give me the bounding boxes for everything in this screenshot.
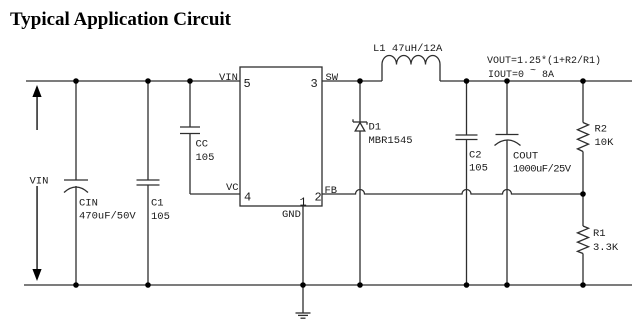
wire CIN branch — [75, 81, 77, 285]
svg-text:L1 47uH/12A: L1 47uH/12A — [373, 43, 443, 55]
svg-text:4: 4 — [244, 191, 251, 205]
pin label FB — [325, 185, 338, 197]
wire COUT branch — [506, 81, 508, 285]
svg-text:CC: CC — [196, 139, 209, 151]
svg-text:470uF/50V: 470uF/50V — [79, 211, 136, 223]
svg-text:3: 3 — [311, 77, 318, 91]
svg-text:FB: FB — [325, 185, 338, 197]
node SW junction D1 top — [357, 78, 363, 84]
node ground junction CIN bottom — [73, 282, 79, 288]
node ground junction R1 bottom — [580, 282, 586, 288]
node VIN junction C1 top — [145, 78, 151, 84]
svg-text:VIN: VIN — [30, 176, 49, 188]
wire FB line with hops — [322, 190, 583, 195]
svg-text:CIN: CIN — [79, 198, 98, 210]
capacitor C1 plates — [137, 180, 160, 185]
value label L1 — [373, 43, 443, 55]
value label D1 — [369, 122, 413, 148]
svg-text:D1: D1 — [369, 122, 382, 134]
svg-text:VC: VC — [226, 182, 239, 194]
svg-text:VIN: VIN — [219, 72, 238, 84]
svg-text:105: 105 — [151, 211, 170, 223]
svg-text:105: 105 — [469, 163, 488, 175]
node VOUT junction R2 top — [580, 78, 586, 84]
wire R2 R1 branch — [582, 81, 584, 285]
wire GND pin 1 to ground — [302, 206, 304, 313]
wire top rail SW to L1 — [322, 80, 382, 82]
node ground junction GND pin — [300, 282, 306, 288]
svg-text:GND: GND — [282, 209, 301, 221]
wire top rail L1 to right edge — [440, 80, 632, 82]
wire C1 branch — [147, 81, 149, 285]
inductor L1 — [382, 56, 440, 82]
resistor R2 zigzag — [578, 123, 589, 152]
node ground junction COUT bottom — [504, 282, 510, 288]
node ground junction C1 bottom — [145, 282, 151, 288]
VIN down arrow — [32, 186, 41, 281]
value label COUT — [513, 151, 572, 176]
node ground junction C2 bottom — [464, 282, 470, 288]
wire top rail left segment — [26, 80, 240, 82]
title — [10, 9, 232, 30]
net label IOUT range — [488, 66, 554, 81]
net label VOUT formula — [487, 55, 601, 67]
node FB junction R2 R1 — [580, 191, 586, 197]
node VOUT junction COUT top — [504, 78, 510, 84]
pin label GND — [282, 209, 301, 221]
svg-text:SW: SW — [326, 72, 339, 84]
wire VC pin 4 — [190, 193, 240, 195]
svg-text:VOUT=1.25*(1+R2/R1): VOUT=1.25*(1+R2/R1) — [487, 55, 601, 67]
svg-text:1: 1 — [300, 196, 307, 210]
svg-text:1000uF/25V: 1000uF/25V — [513, 164, 572, 176]
pin number 2 — [315, 191, 322, 205]
wire C2 branch — [466, 81, 468, 285]
svg-text:COUT: COUT — [513, 151, 538, 163]
svg-text:3.3K: 3.3K — [593, 242, 619, 254]
wire CC branch — [189, 81, 191, 194]
svg-text:2: 2 — [315, 191, 322, 205]
pin number 5 — [244, 77, 251, 91]
capacitor C2 plates — [456, 135, 478, 140]
svg-text:C1: C1 — [151, 198, 164, 210]
pin number 1 — [300, 196, 307, 210]
wire bottom ground rail — [24, 284, 632, 286]
svg-text:Typical Application Circuit: Typical Application Circuit — [10, 9, 232, 30]
value label CIN — [79, 198, 136, 223]
wire D1 branch — [359, 81, 361, 285]
pin label VIN — [219, 72, 238, 84]
ground symbol — [296, 313, 311, 318]
node VOUT junction C2 top — [464, 78, 470, 84]
capacitor CIN plates — [64, 180, 88, 193]
capacitor CC plates — [180, 127, 200, 134]
pin label SW — [326, 72, 339, 84]
pin number 4 — [244, 191, 251, 205]
svg-text:5: 5 — [244, 77, 251, 91]
value label R1 — [593, 228, 619, 254]
net label VIN input — [30, 176, 49, 188]
svg-text:MBR1545: MBR1545 — [369, 135, 413, 147]
node VIN junction CC top — [187, 78, 193, 84]
svg-text:105: 105 — [196, 152, 215, 164]
value label CC — [196, 139, 215, 165]
value label R2 — [595, 124, 615, 150]
op-amp U1 regulator IC box — [240, 67, 322, 206]
svg-text:C2: C2 — [469, 150, 482, 162]
capacitor COUT plates — [495, 135, 521, 146]
svg-text:R1: R1 — [593, 228, 606, 240]
svg-text:R2: R2 — [595, 124, 608, 136]
pin number 3 — [311, 77, 318, 91]
pin label VC — [226, 182, 239, 194]
svg-text:10K: 10K — [595, 137, 615, 149]
diode D1 schottky — [353, 119, 367, 131]
value label C1 — [151, 198, 170, 224]
svg-text:IOUT=0 ~ 8A: IOUT=0 ~ 8A — [488, 66, 554, 81]
node ground junction D1 bottom — [357, 282, 363, 288]
resistor R1 zigzag — [578, 226, 589, 254]
node VIN junction CIN top — [73, 78, 79, 84]
value label C2 — [469, 150, 488, 175]
VIN up arrow — [32, 85, 41, 130]
